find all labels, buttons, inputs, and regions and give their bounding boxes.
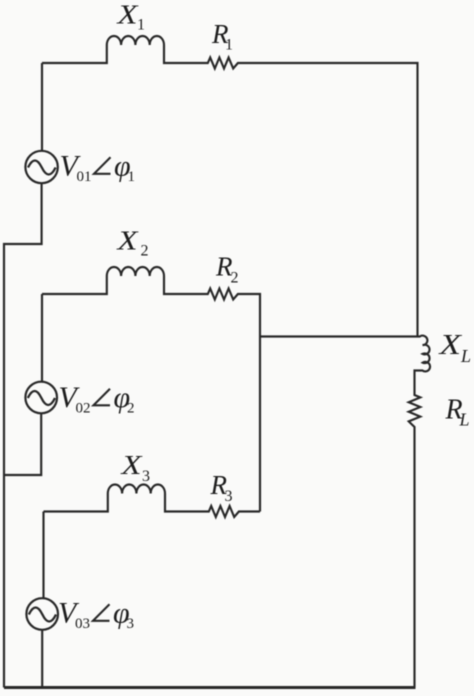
svg-text:03: 03: [75, 616, 90, 632]
svg-text:3: 3: [142, 468, 150, 485]
svg-text:2: 2: [141, 243, 149, 260]
svg-text:2: 2: [231, 270, 239, 287]
svg-text:X: X: [120, 450, 143, 480]
svg-text:3: 3: [127, 616, 135, 632]
svg-text:02: 02: [76, 401, 91, 417]
svg-text:X: X: [438, 330, 462, 361]
svg-text:X: X: [116, 0, 139, 30]
svg-text:1: 1: [128, 169, 136, 185]
svg-text:1: 1: [137, 17, 145, 34]
svg-text:X: X: [116, 226, 139, 256]
svg-text:3: 3: [225, 488, 233, 505]
svg-text:1: 1: [225, 37, 233, 54]
svg-text:L: L: [459, 410, 470, 430]
svg-text:L: L: [460, 346, 471, 366]
svg-text:01: 01: [77, 169, 92, 185]
svg-text:2: 2: [127, 401, 135, 417]
